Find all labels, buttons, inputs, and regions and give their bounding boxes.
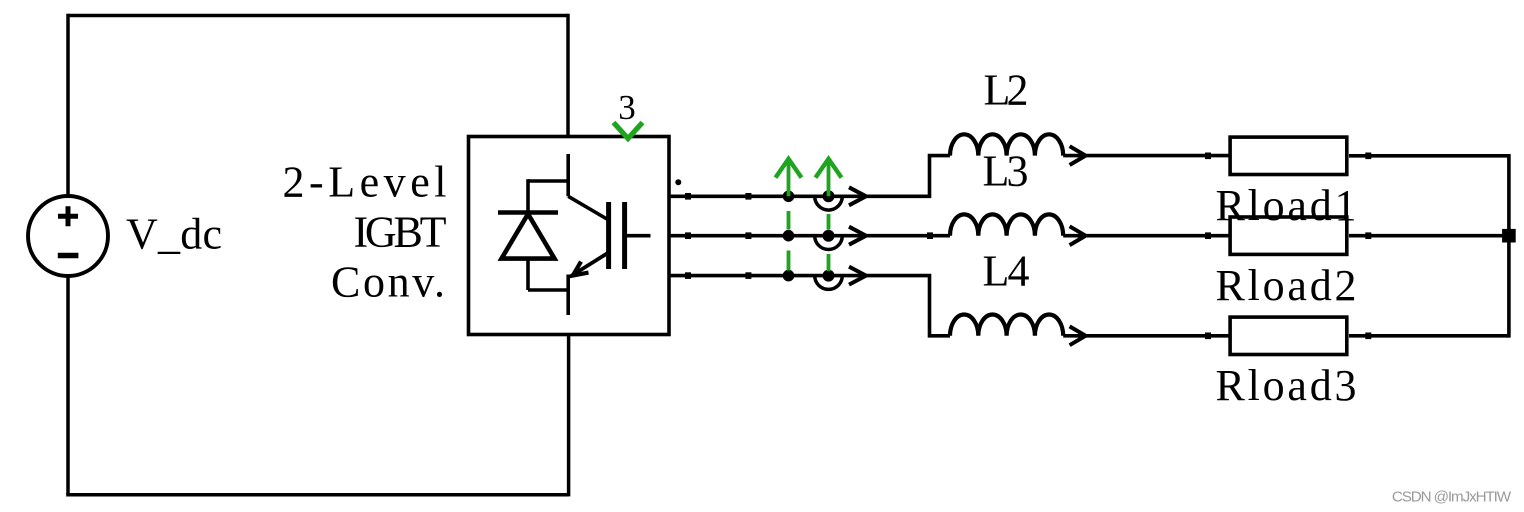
svg-text:Conv.: Conv.	[331, 258, 445, 307]
junction dot phase C left	[783, 270, 795, 282]
diode bottom vertical	[526, 259, 530, 290]
green check below 3	[614, 123, 643, 139]
green dashed link 2	[827, 214, 831, 271]
resistor Rload3	[1230, 317, 1347, 354]
svg-text:Rload2: Rload2	[1216, 261, 1357, 310]
current probe hoop phase B	[815, 236, 843, 250]
phase marker dot	[675, 179, 681, 185]
svg-text:IGBT: IGBT	[354, 208, 447, 257]
IGBT emitter stub	[566, 275, 570, 316]
wire after L4	[1063, 334, 1228, 338]
node square on bus	[1502, 229, 1516, 243]
diode cathode bar	[498, 210, 558, 215]
inductor L3	[950, 214, 1063, 235]
wire: diode bottom to emitter junction	[528, 288, 568, 292]
IGBT gate bar	[622, 202, 627, 269]
inductor L2	[950, 134, 1063, 155]
arrow after L2	[1070, 146, 1086, 165]
svg-text:2-Level: 2-Level	[283, 158, 447, 207]
wire: bottom right vertical from converter	[567, 335, 571, 497]
current probe hoop phase C	[815, 276, 843, 290]
resistor Rload2	[1230, 217, 1347, 254]
green measure arrow 2	[816, 158, 842, 196]
signal arrow phase C	[849, 267, 866, 285]
wire Rload1 to bus	[1349, 154, 1509, 158]
junction dot phase A left	[783, 191, 795, 203]
IGBT emitter arrowhead	[573, 262, 589, 276]
IGBT collector diagonal	[568, 196, 608, 220]
IGBT emitter diagonal	[571, 253, 609, 277]
wire: phase C from converter	[669, 276, 950, 336]
IGBT gate lead	[625, 234, 651, 238]
IGBT collector stub	[566, 154, 570, 196]
junction dot phase B left	[783, 230, 795, 242]
green measure arrow 1	[776, 158, 802, 196]
tick marks on phase wires	[685, 153, 1371, 340]
svg-text:Rload1: Rload1	[1216, 181, 1357, 230]
svg-text:L3: L3	[983, 146, 1029, 195]
inductor L4	[950, 314, 1063, 335]
right bus vertical	[1507, 154, 1511, 338]
svg-text:L4: L4	[983, 246, 1030, 295]
svg-text:CSDN @ImJxHTIW: CSDN @ImJxHTIW	[1392, 489, 1512, 506]
svg-text:Rload3: Rload3	[1216, 361, 1357, 410]
wire: top right vertical into converter	[566, 14, 570, 137]
voltage source V_dc circle	[28, 196, 108, 276]
probe dot phase A	[823, 190, 835, 202]
wire: DC loop top horizontal	[68, 14, 568, 18]
svg-text:V_dc: V_dc	[126, 209, 222, 258]
wire after L3	[1063, 234, 1228, 238]
green dashed link 1	[787, 211, 791, 271]
wire Rload3 to bus	[1349, 334, 1509, 338]
IGBT channel bar	[606, 202, 611, 269]
wire: DC loop left vertical below source	[66, 276, 70, 495]
wire Rload2 to bus	[1349, 234, 1509, 238]
wire: phase A from converter	[669, 156, 950, 197]
signal arrow phase B	[849, 227, 866, 245]
minus sign	[58, 253, 79, 258]
arrow after L4	[1070, 326, 1086, 345]
current probe hoop phase A	[815, 196, 843, 210]
wire after L2	[1063, 154, 1228, 158]
probe dot phase C	[823, 270, 835, 282]
wire: phase B from converter	[669, 234, 950, 238]
diode top vertical	[526, 179, 530, 213]
resistor Rload1	[1230, 137, 1347, 174]
plus sign	[58, 206, 78, 226]
converter block outline	[469, 137, 670, 335]
wire: DC loop bottom horizontal	[66, 493, 568, 497]
wire: DC loop left vertical above source	[66, 14, 70, 196]
probe dot phase B	[823, 230, 835, 242]
svg-text:L2: L2	[984, 66, 1029, 115]
signal arrow phase A	[849, 187, 866, 205]
diode triangle	[502, 214, 555, 259]
wire: collector junction to diode top	[528, 179, 568, 183]
svg-text:3: 3	[618, 88, 636, 127]
arrow after L3	[1070, 226, 1086, 245]
